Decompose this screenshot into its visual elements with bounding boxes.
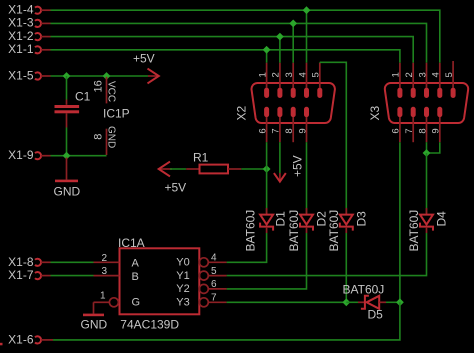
svg-text:GND: GND	[81, 318, 108, 332]
supply symbol +5V (left arrow, at R1)	[159, 162, 186, 195]
svg-text:X1-6: X1-6	[8, 332, 34, 346]
wire +5V arrow to R1	[170, 168, 186, 170]
wire IC1A Y3 to D5 junction	[227, 301, 347, 303]
junction X1-5 rail at IC1P VCC	[103, 72, 111, 80]
supply symbol +5V (down arrow at X2 pin 7)	[274, 155, 305, 181]
wire D3 to Y3/D5 junction	[345, 233, 347, 302]
wire net X1-3 to X3 pin 3	[51, 23, 427, 62]
wire X1-6 to D5 node	[53, 302, 400, 340]
connector pin X1-7	[8, 268, 50, 282]
resistor R1	[186, 151, 241, 174]
svg-text:X3: X3	[368, 105, 382, 120]
svg-text:1: 1	[391, 72, 402, 77]
pin 7 (Y3) with inversion bubble	[199, 298, 208, 307]
svg-text:R1: R1	[193, 151, 209, 165]
svg-text:X1-4: X1-4	[8, 3, 34, 17]
wire D1 to IC1A Y0	[227, 233, 267, 262]
svg-text:4: 4	[297, 72, 308, 77]
connector pin X1-3	[8, 16, 50, 30]
IC1A 74AC139 gate	[94, 236, 227, 332]
wire X2 pin 7 to +5V arrow	[279, 142, 281, 173]
X3 body	[385, 83, 468, 123]
connector X2 (D-sub 9)	[235, 63, 335, 142]
wire drop to X2 pin 3	[292, 23, 294, 62]
svg-text:BAT60J: BAT60J	[343, 283, 385, 297]
junction R1 net at X2 pin 6 drop	[263, 165, 271, 173]
connector pin X1-2	[8, 29, 50, 43]
svg-text:16: 16	[93, 80, 105, 92]
connector pin X1-1	[8, 42, 50, 56]
svg-text:D4: D4	[435, 211, 449, 227]
svg-text:BAT60J: BAT60J	[407, 210, 421, 252]
svg-text:X1-1: X1-1	[8, 42, 34, 56]
svg-text:3: 3	[417, 72, 428, 77]
svg-text:G: G	[132, 297, 141, 309]
svg-text:2: 2	[404, 72, 415, 77]
wire X3 pin 8 net down to D4	[426, 153, 428, 213]
svg-text:5: 5	[444, 72, 455, 77]
svg-text:2: 2	[271, 72, 282, 77]
svg-text:7: 7	[404, 128, 415, 133]
junction X1-2 net at X2 pin 2	[276, 33, 284, 41]
connector pin X1-4	[8, 3, 50, 17]
wire drop to X2 pin 1	[266, 50, 268, 63]
wire X1-8 to IC1A pin A	[51, 261, 94, 263]
svg-text:Y0: Y0	[176, 257, 189, 269]
wire net X1-2 to X3 pin 2	[51, 37, 414, 63]
pin 2 (A)	[94, 261, 120, 263]
diode D3 (BAT60J)	[327, 208, 369, 252]
ground symbol GND below C1	[54, 158, 81, 199]
pin 3 (B)	[94, 275, 120, 277]
svg-text:5: 5	[311, 72, 322, 77]
wire X3 pin 9 tie to pin 8	[427, 142, 440, 153]
ground symbol GND at IC1A pin 1	[81, 302, 108, 331]
svg-text:Y1: Y1	[176, 270, 189, 282]
svg-text:3: 3	[101, 266, 107, 277]
pin 16 VCC of IC1P	[93, 77, 117, 104]
wire drop to X2 pin 4	[306, 10, 308, 63]
junction X1-5 rail at C1	[63, 72, 71, 80]
diode D1 (BAT60J)	[243, 208, 287, 252]
wire X2 pin 5 to D3	[320, 62, 347, 213]
svg-text:+5V: +5V	[291, 155, 305, 177]
wire D4 to IC1A Y1	[227, 233, 427, 276]
svg-text:Y3: Y3	[176, 297, 189, 309]
svg-text:8: 8	[93, 134, 105, 140]
IC1P power part of IC1	[103, 107, 130, 121]
pin 4 (Y0) with inversion bubble	[199, 258, 208, 267]
X3 pin lines bottom (pins 6-9)	[400, 117, 440, 142]
svg-text:X1-5: X1-5	[8, 69, 34, 83]
junction X1-9 net at C1 bottom	[63, 152, 71, 160]
junction X1-1 net at X2 pin 1	[263, 46, 271, 54]
svg-text:X1-3: X1-3	[8, 16, 34, 30]
junction X3 pins 8+9 tie	[423, 149, 431, 157]
wire X2 pin 9 to D2	[306, 142, 308, 213]
connector pin X1-5	[8, 69, 50, 83]
svg-text:X1-9: X1-9	[8, 148, 34, 162]
X3 pads top row pins 1-5	[397, 88, 455, 98]
X2 pin lines bottom (pins 6-9)	[267, 117, 307, 142]
X2 pads bottom row pins 6-9	[264, 107, 309, 117]
svg-text:8: 8	[284, 128, 295, 133]
svg-text:4: 4	[431, 72, 442, 77]
svg-text:8: 8	[417, 128, 428, 133]
svg-text:4: 4	[211, 253, 217, 264]
svg-text:1: 1	[100, 291, 106, 302]
pin 6 (Y2) with inversion bubble	[199, 284, 208, 293]
wire X3 pin 8 down to tie junction	[426, 142, 428, 153]
diode D5 (BAT60J, horizontal, cathode left)	[343, 283, 400, 322]
svg-text:7: 7	[271, 128, 282, 133]
junction X1-4 net at X2 pin 4	[303, 6, 311, 14]
svg-text:+5V: +5V	[165, 180, 187, 194]
wire D2 to IC1A Y2	[227, 233, 307, 289]
svg-text:1: 1	[257, 72, 268, 77]
wire drop to X2 pin 2	[279, 37, 281, 63]
svg-text:D1: D1	[273, 211, 287, 227]
svg-text:D5: D5	[368, 308, 384, 322]
svg-text:2: 2	[101, 253, 107, 264]
svg-text:X1-2: X1-2	[8, 29, 34, 43]
svg-text:A: A	[132, 258, 140, 270]
connector pin X1-6	[8, 332, 53, 346]
diode D2 (BAT60J)	[287, 208, 329, 252]
wire X3 pin 6 down to D5 junction	[399, 142, 401, 302]
wire X1-7 to IC1A pin B	[51, 275, 94, 277]
junction Y3 / D3 / D5 anode-side node	[342, 298, 350, 306]
X3 pads bottom row pins 6-9	[397, 107, 442, 117]
svg-text:X1-7: X1-7	[8, 268, 34, 282]
svg-text:VCC: VCC	[106, 81, 117, 102]
svg-text:6: 6	[257, 128, 268, 133]
connector X3 (D-sub 9)	[368, 61, 468, 142]
pin 5 (Y1) with inversion bubble	[199, 271, 208, 280]
svg-text:6: 6	[391, 128, 402, 133]
pin 8 GND of IC1P	[93, 126, 117, 155]
pin 1 (G) with inversion bubble	[94, 301, 110, 303]
svg-text:Y2: Y2	[176, 283, 189, 295]
diode D4 (BAT60J)	[407, 208, 449, 252]
wire net X1-9 to IC1P GND	[51, 155, 107, 157]
wire net X1-1 to X3 pin 1	[51, 50, 400, 63]
svg-text:C1: C1	[75, 90, 91, 104]
wire net X1-5 +5V rail	[51, 75, 149, 77]
svg-text:IC1A: IC1A	[118, 236, 145, 250]
supply symbol +5V (right arrow, X1-5 rail)	[133, 52, 159, 84]
connector pin X1-9	[8, 148, 50, 162]
X2 body	[251, 83, 334, 123]
svg-text:X1-8: X1-8	[8, 255, 34, 269]
X2 pin lines top (pins 1-5)	[267, 63, 320, 88]
svg-text:BAT60J: BAT60J	[243, 210, 257, 252]
svg-text:9: 9	[431, 128, 442, 133]
svg-text:6: 6	[211, 279, 217, 290]
svg-text:3: 3	[284, 72, 295, 77]
svg-text:D3: D3	[355, 211, 369, 227]
junction D5 cathode-side / X3 pin 6 / X1-6 node	[396, 298, 404, 306]
svg-text:GND: GND	[106, 126, 117, 148]
svg-text:74AC139D: 74AC139D	[120, 318, 179, 332]
svg-text:BAT60J: BAT60J	[287, 210, 301, 252]
wire R1 to X2 pin 6 net	[241, 168, 266, 170]
svg-text:7: 7	[211, 293, 217, 304]
junction X1-3 net at X2 pin 3	[289, 20, 297, 28]
IC1A body	[120, 248, 200, 314]
frame fragment bottom-left	[0, 343, 3, 346]
wire net X1-4 to X3 pin 4	[51, 10, 440, 63]
svg-text:IC1P: IC1P	[103, 107, 130, 121]
svg-text:GND: GND	[54, 184, 81, 198]
svg-text:5: 5	[211, 266, 217, 277]
X2 pads top row pins 1-5	[264, 88, 322, 98]
X3 pin lines top (pins 1-5)	[400, 61, 453, 88]
connector pin X1-8	[8, 255, 50, 269]
svg-text:B: B	[132, 271, 139, 283]
svg-text:9: 9	[297, 128, 308, 133]
svg-text:+5V: +5V	[133, 52, 155, 66]
wire X2 pin 6 to junction and D1	[266, 142, 268, 213]
svg-text:BAT60J: BAT60J	[327, 210, 341, 252]
svg-text:X2: X2	[235, 105, 249, 120]
capacitor C1	[55, 76, 91, 156]
